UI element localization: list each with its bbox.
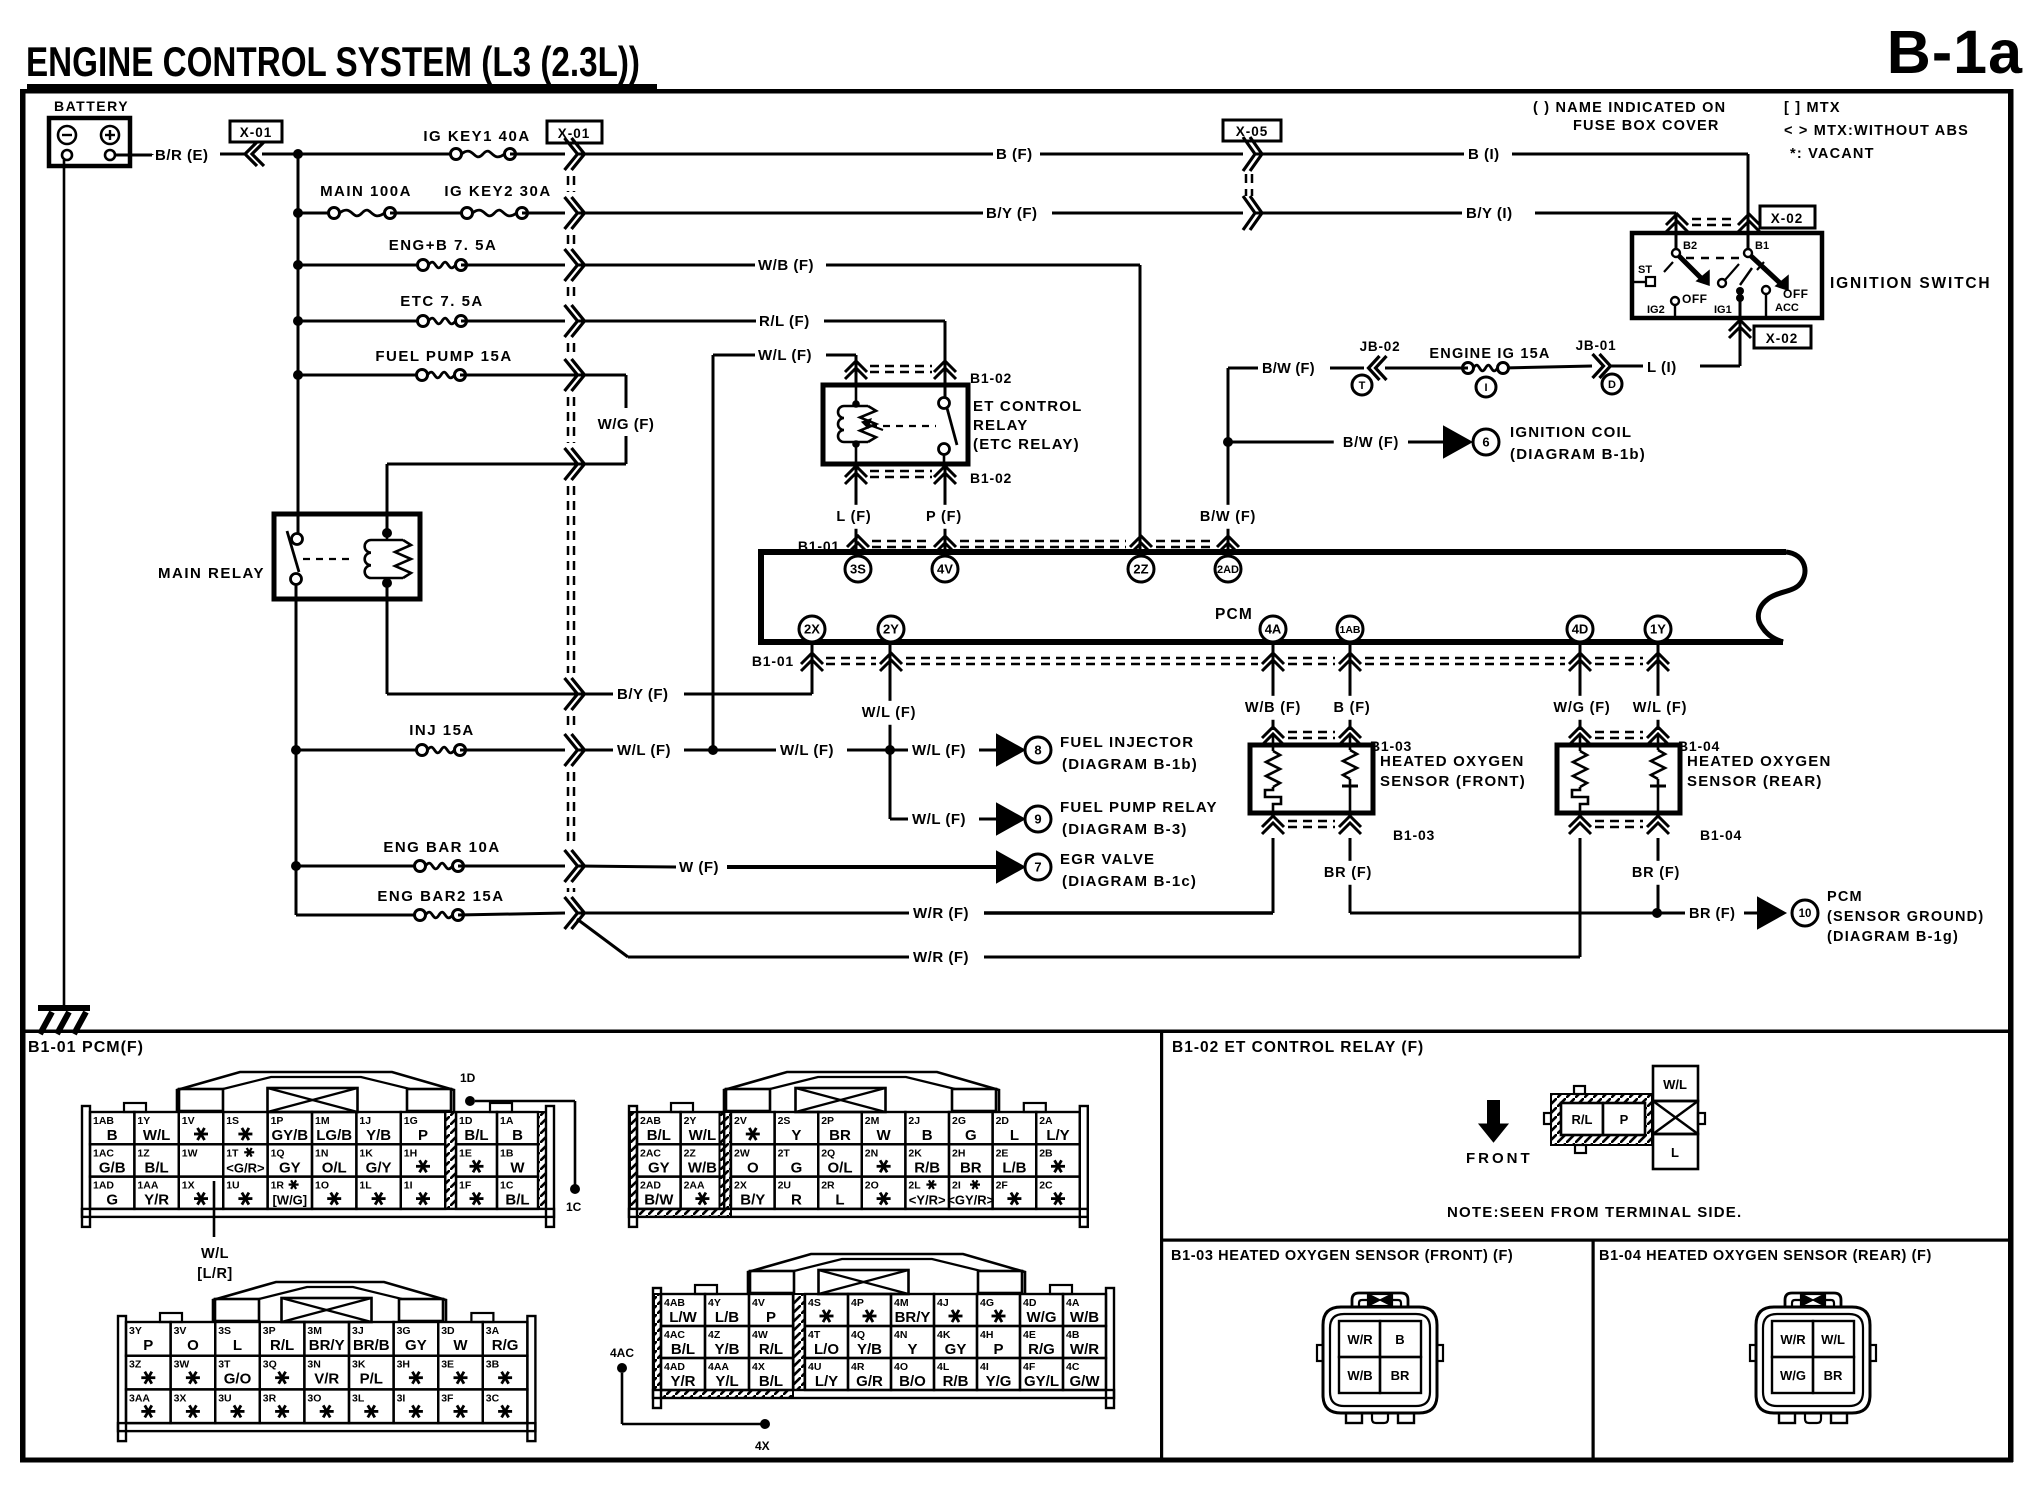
wire BR(F) to PCM sensor ground xyxy=(1657,906,1757,922)
svg-text:4Q: 4Q xyxy=(851,1329,865,1341)
svg-text:B: B xyxy=(922,1127,933,1144)
svg-text:7: 7 xyxy=(1034,860,1041,875)
svg-text:1T: 1T xyxy=(226,1147,239,1159)
svg-text:3W: 3W xyxy=(174,1359,190,1371)
connector B1-04 crossing above rear HO2S xyxy=(1569,727,1720,754)
svg-text:2AC: 2AC xyxy=(640,1147,661,1159)
svg-text:1S: 1S xyxy=(226,1115,239,1127)
svg-text:B/Y (I): B/Y (I) xyxy=(1466,205,1513,222)
wire W/R(F) to rear HO2S heater xyxy=(577,838,1580,966)
svg-text:Y/G: Y/G xyxy=(986,1373,1012,1390)
fuse ENG BAR2 15A xyxy=(296,888,565,921)
svg-text:B: B xyxy=(1395,1332,1404,1347)
svg-text:3F: 3F xyxy=(441,1392,454,1404)
svg-text:D: D xyxy=(1608,379,1616,391)
svg-text:4O: 4O xyxy=(894,1361,908,1373)
svg-text:4D: 4D xyxy=(1023,1297,1037,1309)
svg-text:1C: 1C xyxy=(500,1180,514,1192)
svg-text:BR: BR xyxy=(1391,1368,1410,1383)
svg-text:O: O xyxy=(187,1337,199,1354)
svg-text:3Y: 3Y xyxy=(129,1325,142,1337)
PCM pin 2Y xyxy=(878,616,904,642)
svg-text:L: L xyxy=(1010,1127,1019,1144)
svg-text:MAIN 100A: MAIN 100A xyxy=(320,183,412,200)
svg-text:L: L xyxy=(1671,1145,1679,1160)
svg-text:2D: 2D xyxy=(996,1115,1010,1127)
svg-text:2E: 2E xyxy=(996,1147,1009,1159)
wire ignition switch output to X-02 xyxy=(1729,295,1751,366)
wire B/R(E) to bus xyxy=(262,153,298,156)
svg-text:GY/B: GY/B xyxy=(271,1127,308,1144)
svg-text:4P: 4P xyxy=(851,1297,864,1309)
svg-text:RELAY: RELAY xyxy=(973,417,1028,434)
svg-text:W/R (F): W/R (F) xyxy=(913,949,969,966)
wire W(F) xyxy=(578,859,996,876)
svg-text:1K: 1K xyxy=(359,1147,373,1159)
svg-text:3X: 3X xyxy=(174,1392,187,1404)
svg-text:4B: 4B xyxy=(1066,1329,1080,1341)
svg-text:4C: 4C xyxy=(1066,1361,1080,1373)
svg-text:L/W: L/W xyxy=(669,1309,697,1326)
svg-text:L: L xyxy=(233,1337,242,1354)
svg-text:[ ] MTX: [ ] MTX xyxy=(1784,100,1841,116)
svg-text:B1-04 HEATED OXYGEN SENSOR (R: B1-04 HEATED OXYGEN SENSOR (REAR) (F) xyxy=(1599,1248,1932,1264)
rear HO2S sensor element xyxy=(1650,735,1666,811)
connector X-01 crossings xyxy=(565,138,585,929)
svg-text:3R: 3R xyxy=(263,1392,277,1404)
svg-text:IGNITION COIL: IGNITION COIL xyxy=(1510,424,1632,441)
svg-text:GY: GY xyxy=(945,1341,967,1358)
ignition switch pin ACC xyxy=(1762,286,1799,316)
svg-text:INJ 15A: INJ 15A xyxy=(409,722,475,739)
connector B1-01 pin grid 1 xyxy=(82,1072,554,1227)
svg-text:3T: 3T xyxy=(218,1359,231,1371)
svg-text:G/B: G/B xyxy=(99,1159,126,1176)
svg-text:4X: 4X xyxy=(755,1439,770,1453)
svg-text:4Z: 4Z xyxy=(708,1329,721,1341)
fuse MAIN 100A and IG KEY2 30A xyxy=(298,183,565,219)
svg-text:3H: 3H xyxy=(397,1359,410,1371)
connector B1-01 pin grid 2 xyxy=(629,1072,1088,1227)
svg-text:P: P xyxy=(993,1341,1003,1358)
svg-text:I: I xyxy=(1484,382,1487,394)
svg-text:4R: 4R xyxy=(851,1361,865,1373)
svg-text:Y: Y xyxy=(791,1127,801,1144)
svg-text:B1: B1 xyxy=(1755,240,1769,252)
svg-text:2M: 2M xyxy=(865,1115,880,1127)
svg-text:10: 10 xyxy=(1799,908,1812,920)
connector X-05 label xyxy=(1223,120,1281,141)
svg-text:IG KEY2 30A: IG KEY2 30A xyxy=(444,183,551,200)
svg-text:B/Y (F): B/Y (F) xyxy=(617,686,669,703)
svg-text:B/O: B/O xyxy=(899,1373,926,1390)
connector B1-03 crossing above front HO2S xyxy=(1262,727,1412,754)
svg-text:P: P xyxy=(766,1309,776,1326)
svg-text:4AA: 4AA xyxy=(708,1361,729,1373)
wire pin 4AC xyxy=(610,1346,770,1453)
svg-text:4A: 4A xyxy=(1265,622,1282,637)
svg-text:OFF: OFF xyxy=(1682,292,1708,306)
svg-text:ACC: ACC xyxy=(1775,302,1799,314)
svg-text:2T: 2T xyxy=(778,1147,791,1159)
svg-text:1O: 1O xyxy=(315,1180,329,1192)
svg-text:SENSOR (FRONT): SENSOR (FRONT) xyxy=(1380,773,1526,790)
wire W/L(F) injector net xyxy=(578,742,996,759)
svg-text:2J: 2J xyxy=(908,1115,920,1127)
svg-text:1X: 1X xyxy=(182,1180,195,1192)
svg-text:P: P xyxy=(143,1337,153,1354)
svg-text:W/L (F): W/L (F) xyxy=(617,742,671,759)
wire W/L(F) PCM 1Y to rear HO2S xyxy=(1623,645,1698,730)
front direction arrow xyxy=(1466,1100,1533,1167)
svg-text:NOTE:SEEN FROM TERMINAL SIDE.: NOTE:SEEN FROM TERMINAL SIDE. xyxy=(1447,1204,1742,1221)
svg-text:IG2: IG2 xyxy=(1647,304,1665,316)
svg-text:B1-02 ET CONTROL RELAY (F): B1-02 ET CONTROL RELAY (F) xyxy=(1172,1039,1424,1056)
svg-text:( ) NAME INDICATED ON: ( ) NAME INDICATED ON xyxy=(1533,100,1726,116)
svg-text:W/R: W/R xyxy=(1780,1332,1806,1347)
svg-text:R/G: R/G xyxy=(492,1337,519,1354)
svg-text:W/L (F): W/L (F) xyxy=(780,742,834,759)
fuse ETC 7.5A xyxy=(298,293,565,327)
svg-text:ET CONTROL: ET CONTROL xyxy=(973,398,1083,415)
label W/L [L/R] for pin 1W xyxy=(197,1181,233,1282)
svg-text:4AD: 4AD xyxy=(664,1361,685,1373)
svg-text:4V: 4V xyxy=(752,1297,765,1309)
svg-text:2K: 2K xyxy=(908,1147,922,1159)
svg-text:1V: 1V xyxy=(182,1115,195,1127)
svg-text:W/L (F): W/L (F) xyxy=(912,742,966,759)
svg-text:L/B: L/B xyxy=(715,1309,739,1326)
svg-text:B1-03: B1-03 xyxy=(1370,738,1412,754)
main relay switch xyxy=(287,514,352,585)
svg-text:< > MTX:WITHOUT ABS: < > MTX:WITHOUT ABS xyxy=(1784,123,1969,139)
svg-text:W/G (F): W/G (F) xyxy=(598,416,655,433)
ignition switch dashed link xyxy=(1686,257,1740,259)
svg-text:G: G xyxy=(791,1159,803,1176)
svg-text:L/Y: L/Y xyxy=(1046,1127,1069,1144)
svg-text:2P: 2P xyxy=(821,1115,834,1127)
wire W/L(F) to ET relay xyxy=(713,347,856,750)
svg-text:B1-02: B1-02 xyxy=(970,470,1012,486)
bus from battery feed xyxy=(293,149,303,534)
svg-text:W/L: W/L xyxy=(689,1127,717,1144)
svg-text:IGNITION SWITCH: IGNITION SWITCH xyxy=(1830,275,1991,292)
svg-text:B (F): B (F) xyxy=(1333,700,1370,716)
PCM pin 1Y xyxy=(1645,616,1671,642)
connector X-02 upper crossing xyxy=(1666,214,1760,232)
svg-text:3V: 3V xyxy=(174,1325,187,1337)
ignition switch pin B2 xyxy=(1672,240,1697,257)
svg-text:1C: 1C xyxy=(566,1200,582,1214)
svg-text:R/L: R/L xyxy=(759,1341,783,1358)
connector B1-01 crossing below PCM xyxy=(752,653,1669,671)
svg-text:X-01: X-01 xyxy=(240,125,273,140)
svg-text:G/W: G/W xyxy=(1070,1373,1101,1390)
fuel pump relay reference 9 xyxy=(997,799,1218,838)
svg-text:G/O: G/O xyxy=(224,1371,252,1388)
ignition switch pin B1 xyxy=(1744,240,1769,257)
svg-text:SENSOR (REAR): SENSOR (REAR) xyxy=(1687,773,1823,790)
svg-text:Y/B: Y/B xyxy=(366,1127,391,1144)
connector X-05 crossing xyxy=(1243,137,1262,230)
svg-text:W: W xyxy=(510,1159,525,1176)
wire W/B(F) xyxy=(578,257,1140,549)
svg-text:1H: 1H xyxy=(404,1147,417,1159)
wire battery negative to ground xyxy=(63,160,66,1005)
wire B/Y(F) main relay coil to PCM 2X xyxy=(387,583,812,703)
svg-text:4K: 4K xyxy=(937,1329,951,1341)
svg-text:B/L: B/L xyxy=(505,1192,529,1209)
svg-text:3S: 3S xyxy=(850,562,866,577)
svg-text:G: G xyxy=(106,1192,118,1209)
svg-text:2AB: 2AB xyxy=(640,1115,661,1127)
svg-text:2N: 2N xyxy=(865,1147,878,1159)
svg-text:R: R xyxy=(791,1192,802,1209)
svg-text:(ETC RELAY): (ETC RELAY) xyxy=(973,436,1080,453)
svg-text:2I: 2I xyxy=(952,1180,961,1192)
svg-text:B1-03: B1-03 xyxy=(1393,827,1435,843)
svg-text:(DIAGRAM B-1b): (DIAGRAM B-1b) xyxy=(1510,446,1646,463)
svg-text:Y/R: Y/R xyxy=(144,1192,169,1209)
svg-text:1N: 1N xyxy=(315,1147,328,1159)
svg-text:3U: 3U xyxy=(218,1392,231,1404)
svg-text:T: T xyxy=(1359,380,1366,392)
svg-text:2Y: 2Y xyxy=(684,1115,697,1127)
svg-text:4L: 4L xyxy=(937,1361,950,1373)
svg-text:MAIN RELAY: MAIN RELAY xyxy=(158,565,265,582)
svg-text:1J: 1J xyxy=(359,1115,371,1127)
battery xyxy=(49,98,130,166)
svg-text:B/W (F): B/W (F) xyxy=(1343,435,1399,451)
svg-text:B (I): B (I) xyxy=(1468,146,1500,163)
svg-text:W/B: W/B xyxy=(1070,1309,1099,1326)
wire W/L(F) from PCM 2Y xyxy=(852,645,927,750)
svg-text:2AD: 2AD xyxy=(1217,564,1239,576)
ignition switch U1 xyxy=(1632,233,1991,318)
svg-text:3A: 3A xyxy=(486,1325,500,1337)
wire W/L(F) branch to fuel pump relay xyxy=(890,750,996,828)
svg-text:OFF: OFF xyxy=(1783,287,1809,301)
wire B/Y(I) xyxy=(1256,205,1676,248)
svg-text:1D: 1D xyxy=(459,1115,473,1127)
ignition switch pin ST xyxy=(1632,264,1655,286)
svg-text:B/W (F): B/W (F) xyxy=(1200,509,1256,525)
svg-text:3Z: 3Z xyxy=(129,1359,142,1371)
svg-text:W: W xyxy=(453,1337,468,1354)
svg-text:2L: 2L xyxy=(908,1180,921,1192)
svg-text:W/R: W/R xyxy=(1070,1341,1099,1358)
svg-text:1AD: 1AD xyxy=(93,1180,114,1192)
svg-text:FUEL PUMP 15A: FUEL PUMP 15A xyxy=(375,348,512,365)
svg-text:2AD: 2AD xyxy=(640,1180,661,1192)
svg-text:4U: 4U xyxy=(808,1361,821,1373)
svg-text:FUEL PUMP RELAY: FUEL PUMP RELAY xyxy=(1060,799,1218,816)
svg-text:Y/L: Y/L xyxy=(715,1373,738,1390)
svg-text:2Z: 2Z xyxy=(1133,562,1148,577)
heated oxygen sensor front xyxy=(1250,745,1526,813)
svg-text:O/L: O/L xyxy=(828,1159,853,1176)
svg-text:Y: Y xyxy=(907,1341,917,1358)
svg-text:4V: 4V xyxy=(937,562,953,577)
svg-text:9: 9 xyxy=(1034,812,1041,827)
svg-text:1L: 1L xyxy=(359,1180,372,1192)
svg-text:GY/L: GY/L xyxy=(1024,1373,1059,1390)
svg-text:ETC 7. 5A: ETC 7. 5A xyxy=(400,293,484,310)
svg-text:B: B xyxy=(107,1127,118,1144)
svg-text:B/L: B/L xyxy=(464,1127,488,1144)
svg-text:R/G: R/G xyxy=(1028,1341,1055,1358)
svg-text:2U: 2U xyxy=(778,1180,791,1192)
svg-text:1I: 1I xyxy=(404,1180,413,1192)
wire W/G(F) xyxy=(387,375,654,533)
heated oxygen sensor rear xyxy=(1557,745,1832,813)
svg-text:8: 8 xyxy=(1034,743,1041,758)
svg-text:JB-01: JB-01 xyxy=(1576,338,1617,353)
svg-text:O/L: O/L xyxy=(322,1159,347,1176)
svg-text:W/B (F): W/B (F) xyxy=(1245,700,1301,716)
fuse INJ 15A xyxy=(296,722,565,756)
svg-text:ENG BAR2 15A: ENG BAR2 15A xyxy=(377,888,504,905)
svg-text:1E: 1E xyxy=(459,1147,472,1159)
svg-text:3O: 3O xyxy=(307,1392,321,1404)
ignition coil reference 6 xyxy=(1444,424,1646,463)
svg-text:P: P xyxy=(418,1127,428,1144)
svg-text:1G: 1G xyxy=(404,1115,418,1127)
svg-text:R/L: R/L xyxy=(1572,1112,1593,1127)
PCM pin 2X xyxy=(799,616,825,642)
wire B(F) xyxy=(578,146,1243,163)
main relay K1 xyxy=(158,514,420,599)
svg-text:L/O: L/O xyxy=(814,1341,839,1358)
svg-text:B1-02: B1-02 xyxy=(970,370,1012,386)
connector B1-01 pin grid 4 xyxy=(653,1254,1114,1408)
svg-text:B/W (F): B/W (F) xyxy=(1262,361,1315,377)
svg-text:2X: 2X xyxy=(734,1180,747,1192)
connector X-01 left label xyxy=(230,121,282,142)
main relay coil xyxy=(365,528,411,599)
connector B1-03 crossing below front HO2S xyxy=(1262,816,1435,843)
PCM pin 3S xyxy=(845,556,871,582)
fuse ENG BAR 10A xyxy=(296,839,565,872)
svg-text:X-05: X-05 xyxy=(1236,124,1269,139)
svg-text:BR: BR xyxy=(960,1159,982,1176)
svg-text:1D: 1D xyxy=(460,1071,476,1085)
svg-text:O: O xyxy=(747,1159,759,1176)
ignition switch pin IG1 xyxy=(1714,264,1752,316)
svg-text:<GY/R>: <GY/R> xyxy=(947,1193,994,1208)
wire pin 1D xyxy=(460,1071,582,1214)
wire W/G(F) PCM 4D to rear HO2S xyxy=(1545,645,1620,730)
PCM pin 2AD xyxy=(1215,556,1241,582)
svg-text:B-1a: B-1a xyxy=(1887,18,2023,86)
svg-text:W/L (F): W/L (F) xyxy=(862,705,916,721)
ET relay connector face B1-02 xyxy=(1544,1066,1705,1169)
svg-text:3D: 3D xyxy=(441,1325,455,1337)
svg-text:R/B: R/B xyxy=(914,1159,940,1176)
svg-text:W/B: W/B xyxy=(1347,1368,1372,1383)
wire B/W(F) to ignition coil xyxy=(1223,431,1443,455)
svg-text:P: P xyxy=(1620,1112,1629,1127)
svg-text:W/L (F): W/L (F) xyxy=(1633,700,1687,716)
svg-text:2V: 2V xyxy=(734,1115,747,1127)
PCM connector box B1-01 xyxy=(758,549,1805,645)
svg-text:FUEL INJECTOR: FUEL INJECTOR xyxy=(1060,734,1194,751)
svg-text:HEATED OXYGEN: HEATED OXYGEN xyxy=(1380,753,1525,770)
svg-text:4F: 4F xyxy=(1023,1361,1036,1373)
svg-text:2R: 2R xyxy=(821,1180,835,1192)
fuse ENG+B 7.5A xyxy=(298,237,565,271)
svg-text:W/R (F): W/R (F) xyxy=(913,905,969,922)
wire B/W(F) from JB-02 xyxy=(1228,361,1364,549)
svg-text:ST: ST xyxy=(1638,264,1652,276)
svg-text:W/L (F): W/L (F) xyxy=(758,347,812,364)
ignition switch blade B2 xyxy=(1664,256,1709,306)
svg-text:Y/B: Y/B xyxy=(857,1341,882,1358)
svg-text:GY: GY xyxy=(279,1159,301,1176)
wire P(F) ET relay to PCM 4V xyxy=(916,464,972,549)
svg-text:FRONT: FRONT xyxy=(1466,1150,1533,1167)
connector B1-02 crossing above ET relay xyxy=(845,361,1012,386)
svg-text:P/L: P/L xyxy=(360,1371,383,1388)
svg-text:1M: 1M xyxy=(315,1115,330,1127)
svg-text:W/G (F): W/G (F) xyxy=(1553,700,1610,716)
svg-text:4A: 4A xyxy=(1066,1297,1080,1309)
svg-text:1R: 1R xyxy=(271,1180,285,1192)
svg-text:4AC: 4AC xyxy=(664,1329,685,1341)
svg-text:3N: 3N xyxy=(307,1359,320,1371)
svg-text:3S: 3S xyxy=(218,1325,231,1337)
svg-text:4W: 4W xyxy=(752,1329,768,1341)
svg-text:G/Y: G/Y xyxy=(366,1159,392,1176)
svg-text:B/R (E): B/R (E) xyxy=(155,147,209,164)
svg-text:4S: 4S xyxy=(808,1297,821,1309)
svg-text:4M: 4M xyxy=(894,1297,909,1309)
svg-text:GY: GY xyxy=(405,1337,427,1354)
junction JB-01 xyxy=(1576,338,1622,394)
svg-text:2Q: 2Q xyxy=(821,1147,835,1159)
svg-text:L/Y: L/Y xyxy=(815,1373,838,1390)
svg-text:Y/B: Y/B xyxy=(714,1341,739,1358)
svg-text:1AA: 1AA xyxy=(137,1180,158,1192)
svg-text:B/L: B/L xyxy=(145,1159,169,1176)
svg-text:B/Y: B/Y xyxy=(740,1192,765,1209)
svg-text:1Z: 1Z xyxy=(137,1147,150,1159)
svg-text:ENG BAR 10A: ENG BAR 10A xyxy=(383,839,500,856)
legend notes xyxy=(1533,100,1969,162)
wire L(I) xyxy=(1610,359,1740,376)
svg-text:P (F): P (F) xyxy=(926,509,962,525)
svg-text:BR: BR xyxy=(829,1127,851,1144)
svg-text:2Z: 2Z xyxy=(684,1147,697,1159)
ignition switch pin IG2 xyxy=(1647,297,1679,318)
svg-text:4Y: 4Y xyxy=(708,1297,721,1309)
svg-text:4E: 4E xyxy=(1023,1329,1036,1341)
ET relay contact xyxy=(870,385,957,464)
svg-text:W/L: W/L xyxy=(201,1246,229,1262)
svg-text:Y/R: Y/R xyxy=(670,1373,695,1390)
connector face B1-04 xyxy=(1750,1293,1876,1423)
connector X-02 upper label xyxy=(1760,206,1815,228)
svg-text:JB-02: JB-02 xyxy=(1360,339,1401,354)
svg-text:4J: 4J xyxy=(937,1297,949,1309)
svg-text:2X: 2X xyxy=(804,622,820,637)
svg-text:6: 6 xyxy=(1482,435,1489,450)
svg-text:3K: 3K xyxy=(352,1359,366,1371)
svg-text:2C: 2C xyxy=(1039,1180,1053,1192)
svg-text:W (F): W (F) xyxy=(679,859,719,876)
svg-text:BR/Y: BR/Y xyxy=(895,1309,931,1326)
svg-text:1F: 1F xyxy=(459,1180,472,1192)
